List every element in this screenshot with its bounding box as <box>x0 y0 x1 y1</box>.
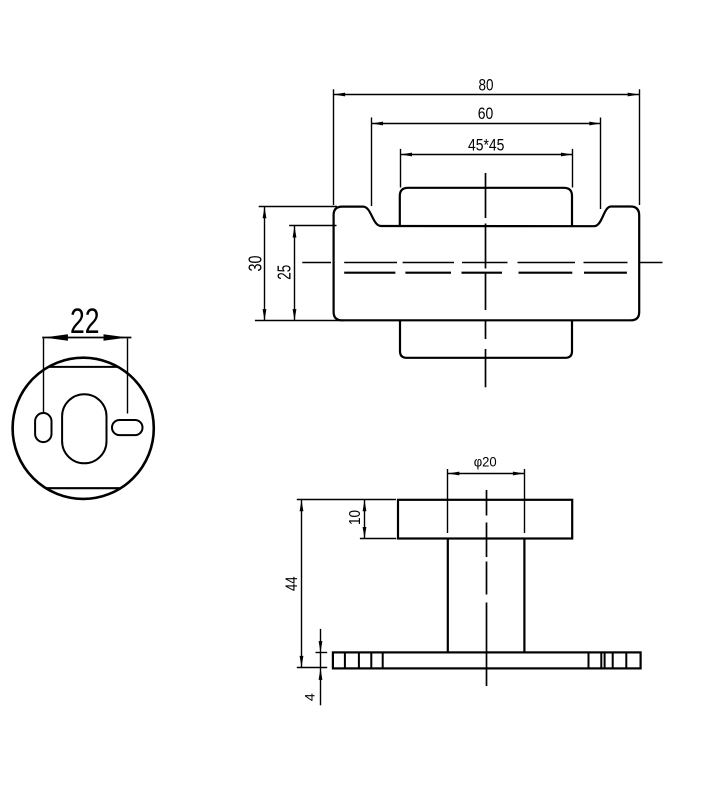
extension line phi20 left <box>447 469 449 533</box>
arrow 60 left <box>372 122 384 126</box>
extension line 60 left <box>371 118 373 207</box>
dimension line 44 <box>301 500 303 668</box>
arrow 30 bottom <box>263 309 267 321</box>
dimension line 60 <box>372 123 601 125</box>
svg-text:4: 4 <box>302 693 317 702</box>
arrow 60 right <box>589 122 601 126</box>
dimension line 22 <box>42 337 131 339</box>
dimension line 25 <box>294 226 296 321</box>
extension line 25 top <box>289 225 336 227</box>
svg-text:45*45: 45*45 <box>468 135 505 154</box>
extension line 80 left <box>333 89 335 205</box>
dimension line 80 <box>334 94 640 96</box>
dimension line phi20 <box>448 473 525 475</box>
arrow phi20 left <box>448 472 460 476</box>
side view bottom chord <box>46 487 122 489</box>
extension line 45 right <box>572 149 574 188</box>
arrow 25 top <box>293 226 297 238</box>
extension line 22 right <box>127 339 129 414</box>
front view base plate <box>333 652 641 668</box>
top view body outline <box>334 207 640 321</box>
extension line 44 bottom <box>297 667 327 669</box>
svg-text:25: 25 <box>275 265 295 280</box>
extension line 30 top <box>259 206 337 208</box>
arrow 80 left <box>334 93 346 97</box>
arrow 44 bottom <box>300 656 304 668</box>
top view lower hidden dashed line <box>344 272 627 274</box>
base plate serration ticks <box>345 652 626 668</box>
extension line 10 bottom <box>360 538 396 540</box>
arrow 4 lower <box>319 668 323 680</box>
front view vertical centerline <box>486 490 488 686</box>
side view center slot <box>62 394 106 463</box>
front view stem right edge <box>523 539 525 653</box>
arrow 44 top <box>300 500 304 512</box>
extension line 80 right <box>639 89 641 205</box>
dimension line 45*45 <box>401 154 573 156</box>
front view stem left edge <box>447 539 449 653</box>
top view upper hidden dashed line <box>302 262 662 264</box>
extension line 30 25 bottom <box>255 320 344 322</box>
extension line 45 left <box>400 149 402 188</box>
svg-text:80: 80 <box>479 76 494 95</box>
svg-text:30: 30 <box>245 256 265 272</box>
side view flange circle <box>13 358 154 499</box>
dimension line 30 <box>264 207 266 321</box>
extension line 22 left <box>43 339 45 413</box>
dimension line 4 <box>320 629 322 705</box>
extension tick 4 top <box>316 652 328 654</box>
side view top chord <box>48 366 119 368</box>
svg-text:φ20: φ20 <box>474 453 497 469</box>
svg-text:22: 22 <box>70 302 100 341</box>
arrow 45 right <box>561 153 573 157</box>
arrow 45 left <box>401 153 413 157</box>
arrow phi20 right <box>513 472 525 476</box>
extension line phi20 right <box>524 469 526 533</box>
side view left small slot <box>35 413 51 442</box>
top view lower block <box>400 320 572 358</box>
svg-text:44: 44 <box>282 576 301 591</box>
arrow 22 right <box>104 334 128 340</box>
side view right small slot <box>112 420 143 435</box>
svg-text:10: 10 <box>347 510 364 525</box>
top view vertical centerline <box>485 173 487 387</box>
dimension line 10 <box>364 500 366 539</box>
arrow 10 bottom <box>363 527 367 539</box>
arrow 30 top <box>263 207 267 219</box>
arrow 25 bottom <box>293 309 297 321</box>
extension line 60 right <box>600 118 602 210</box>
extension line 44 10 top <box>297 499 396 501</box>
arrow 80 right <box>628 93 640 97</box>
arrow 22 left <box>44 334 68 340</box>
top view upper block <box>400 188 572 226</box>
arrow 10 top <box>363 500 367 512</box>
svg-text:60: 60 <box>478 104 494 123</box>
front view head <box>398 500 572 539</box>
arrow 4 upper <box>319 641 323 653</box>
